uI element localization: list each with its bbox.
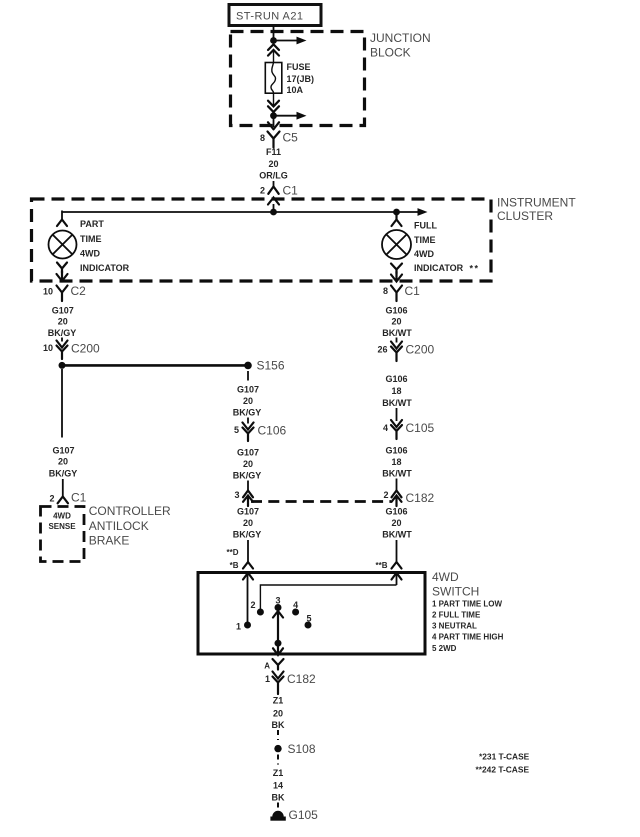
svg-text:BK/WT: BK/WT (382, 328, 412, 338)
svg-text:BK/GY: BK/GY (233, 408, 262, 418)
svg-text:BK: BK (272, 793, 285, 803)
svg-text:G107: G107 (52, 446, 74, 456)
svg-text:Z1: Z1 (273, 768, 284, 778)
svg-text:PART: PART (80, 219, 104, 229)
svg-text:BLOCK: BLOCK (370, 46, 411, 60)
svg-text:3: 3 (234, 490, 239, 500)
svg-text:BK/WT: BK/WT (382, 398, 412, 408)
switch terminal 5 (305, 614, 312, 629)
lamp terminal fork (full time, top) (392, 212, 402, 226)
svg-text:BRAKE: BRAKE (89, 534, 130, 548)
switch terminal 4 (292, 600, 299, 616)
controller antilock brake (41, 504, 172, 562)
svg-text:C1: C1 (405, 284, 421, 298)
wire Z1 14 BK (272, 768, 285, 810)
switch entry male arrow (left) (243, 573, 253, 580)
svg-text:20: 20 (268, 159, 278, 169)
svg-text:CONTROLLER: CONTROLLER (89, 504, 171, 518)
splice node (left, to S156) (59, 362, 66, 369)
wire G107 20 BK/GY (S156 to C106) (233, 385, 262, 424)
svg-text:BK/GY: BK/GY (49, 469, 78, 479)
svg-text:S108: S108 (288, 742, 316, 756)
ground G105 (270, 808, 318, 822)
connector C5 pin 8 (260, 131, 298, 148)
svg-text:**: ** (470, 264, 480, 274)
wire terminal 2 riser (260, 585, 396, 610)
svg-text:G107: G107 (237, 448, 259, 458)
svg-text:14: 14 (273, 781, 283, 791)
svg-text:C5: C5 (283, 131, 299, 145)
switch wiper pivot node (275, 640, 282, 647)
connector C1 pin 2 (instrument cluster, female fork) (260, 184, 298, 198)
svg-text:CLUSTER: CLUSTER (497, 209, 553, 223)
svg-text:G107: G107 (237, 507, 259, 517)
svg-text:10: 10 (43, 287, 53, 297)
junction node (top) (270, 37, 277, 44)
svg-text:4 PART TIME HIGH: 4 PART TIME HIGH (432, 633, 504, 642)
svg-text:C1: C1 (283, 184, 299, 198)
double chevron up (circuit continues) (268, 44, 279, 55)
svg-text:8: 8 (383, 286, 388, 296)
connector C1 pin 2 (controller) (49, 491, 86, 505)
wire arrow to other circuits (bottom) (274, 112, 307, 120)
splice S156 (244, 359, 285, 373)
wire dashed C182 mating line (251, 500, 391, 503)
switch terminal fork (left) (243, 562, 253, 569)
wire G107 20 BK/GY (C2 to C200) (48, 306, 77, 342)
svg-text:20: 20 (391, 317, 401, 327)
svg-text:4WD: 4WD (432, 570, 459, 584)
wire bus with right arrow (62, 208, 428, 216)
svg-text:JUNCTION: JUNCTION (370, 31, 431, 45)
wire S108 down (dashed) (277, 755, 279, 765)
wire junction block exit with male arrow (268, 112, 279, 129)
svg-text:C182: C182 (287, 672, 316, 686)
junction block (231, 31, 431, 126)
svg-text:A: A (264, 662, 270, 671)
svg-text:TIME: TIME (80, 234, 102, 244)
svg-text:1 PART TIME LOW: 1 PART TIME LOW (432, 600, 503, 609)
junction node (bottom) (270, 112, 277, 119)
svg-text:1: 1 (236, 622, 241, 632)
svg-text:2 FULL TIME: 2 FULL TIME (432, 611, 481, 620)
wire below left splice (61, 369, 63, 438)
wire splice to S156 (62, 364, 247, 367)
connector C182 pin 3 (fork and male arrow) (234, 490, 253, 506)
svg-text:2: 2 (49, 494, 54, 504)
svg-text:10: 10 (43, 343, 53, 353)
svg-text:4: 4 (293, 600, 298, 610)
splice S108 (274, 742, 316, 756)
svg-text:OR/LG: OR/LG (259, 171, 288, 181)
switch terminal fork A (below box) (264, 659, 283, 671)
svg-text:2: 2 (383, 490, 388, 500)
svg-text:C105: C105 (406, 421, 435, 435)
connector C105 pin 4 (383, 420, 435, 439)
connector C200 pin 26 (377, 342, 434, 362)
wire switch right entry down (396, 574, 398, 585)
svg-text:5: 5 (306, 614, 311, 624)
svg-text:ANTILOCK: ANTILOCK (89, 519, 149, 533)
wire stub below S156 (247, 371, 249, 381)
svg-text:8: 8 (260, 133, 265, 143)
svg-text:*231 T-CASE: *231 T-CASE (479, 752, 530, 762)
connector C200 pin 10 (43, 341, 100, 360)
wire F11 20 OR/LG (259, 147, 288, 187)
svg-text:C200: C200 (71, 342, 100, 356)
wire G107 20 BK/GY (C106 to C182) (233, 448, 262, 492)
wire G106 18 BK/WT (C105 to C182) (382, 446, 412, 492)
lamp L1 part time 4WD indicator (49, 219, 130, 273)
svg-text:BK/WT: BK/WT (382, 469, 412, 479)
switch terminal 2 (250, 600, 263, 616)
svg-text:SWITCH: SWITCH (432, 585, 479, 599)
svg-text:**D: **D (226, 548, 238, 557)
svg-text:C106: C106 (258, 424, 287, 438)
wire bus corner down to part time lamp (61, 211, 63, 220)
lamp terminal fork (full time, bottom) (391, 264, 402, 274)
connector C182 pin 2 (fork and male arrow) (383, 490, 434, 506)
svg-text:20: 20 (391, 518, 401, 528)
wire G106 18 BK/WT (C200 to C105) (382, 374, 412, 421)
4WD switch SW1 (198, 570, 504, 654)
connector C182 pin 1 (265, 672, 316, 695)
svg-text:5 2WD: 5 2WD (432, 644, 457, 653)
connector C1 pin 2 male arrow (below border) (268, 198, 279, 205)
switch terminal 3 (275, 596, 282, 612)
svg-text:G107: G107 (237, 385, 259, 395)
svg-text:C182: C182 (406, 491, 435, 505)
svg-text:26: 26 (377, 345, 387, 355)
wire switch left entry to terminal 1 (247, 574, 249, 623)
svg-text:SENSE: SENSE (48, 522, 76, 531)
svg-text:BK/GY: BK/GY (233, 530, 262, 540)
svg-text:INDICATOR: INDICATOR (80, 263, 130, 273)
wire lamp to C1 with male arrow (391, 272, 402, 282)
svg-text:18: 18 (391, 457, 401, 467)
switch terminal fork (right) (392, 562, 402, 569)
wire arrow to other circuits (top) (274, 37, 307, 45)
svg-text:BK: BK (272, 720, 285, 730)
svg-text:FUSE: FUSE (287, 62, 311, 72)
svg-text:20: 20 (58, 457, 68, 467)
lamp L2 full time 4WD indicator (382, 221, 480, 274)
switch entry male arrow (right) (392, 573, 402, 580)
wire G107 20 BK/GY (C182 to switch) (233, 507, 262, 563)
svg-text:17(JB): 17(JB) (287, 74, 315, 84)
double chevron down (circuit continues) (268, 101, 279, 112)
svg-text:Z1: Z1 (273, 696, 284, 706)
svg-text:S156: S156 (257, 359, 285, 373)
svg-text:BK/GY: BK/GY (48, 328, 77, 338)
svg-text:20: 20 (243, 459, 253, 469)
svg-text:2: 2 (250, 600, 255, 610)
svg-text:20: 20 (273, 709, 283, 719)
wire switch exit with male arrow (273, 643, 283, 655)
svg-text:C200: C200 (406, 343, 435, 357)
svg-text:INDICATOR: INDICATOR (414, 263, 464, 273)
wire chevron to fuse (273, 50, 275, 63)
wire G107 20 BK/GY (to controller) (49, 446, 78, 498)
svg-text:F11: F11 (266, 147, 281, 157)
svg-text:1: 1 (265, 674, 270, 684)
svg-text:C2: C2 (71, 284, 87, 298)
svg-text:4WD: 4WD (80, 249, 101, 259)
wire from ST-RUN A21 into junction block (273, 26, 275, 40)
svg-text:BK/GY: BK/GY (233, 471, 262, 481)
node bus / full time lamp tap (393, 209, 400, 216)
lamp terminal fork (part time, bottom) (57, 263, 67, 274)
svg-text:ST-RUN A21: ST-RUN A21 (236, 11, 303, 23)
svg-text:G106: G106 (385, 374, 407, 384)
connector C1 pin 8 (383, 284, 420, 301)
svg-text:TIME: TIME (414, 235, 436, 245)
node ST-RUN A21 (229, 5, 321, 26)
svg-text:20: 20 (243, 396, 253, 406)
svg-text:2: 2 (260, 186, 265, 196)
connector C2 pin 10 (43, 284, 86, 301)
node bus / C1 feed (270, 209, 277, 216)
svg-text:4: 4 (383, 423, 388, 433)
svg-text:G106: G106 (385, 306, 407, 316)
svg-text:5: 5 (234, 425, 239, 435)
svg-text:3: 3 (275, 596, 280, 606)
svg-text:BK/WT: BK/WT (382, 530, 412, 540)
svg-text:G106: G106 (385, 507, 407, 517)
wire C1 to bus (273, 204, 275, 212)
connector C106 pin 5 (234, 423, 287, 442)
svg-text:C1: C1 (71, 491, 87, 505)
svg-text:20: 20 (58, 317, 68, 327)
wire Z1 20 BK (272, 696, 285, 741)
svg-text:20: 20 (243, 518, 253, 528)
svg-text:FULL: FULL (414, 221, 437, 231)
svg-text:**B: **B (375, 561, 387, 570)
instrument cluster (32, 196, 577, 282)
svg-text:18: 18 (391, 386, 401, 396)
switch terminal 1 (236, 622, 251, 632)
svg-text:G105: G105 (289, 808, 319, 822)
svg-text:10A: 10A (287, 85, 304, 95)
svg-text:**242 T-CASE: **242 T-CASE (476, 765, 530, 775)
svg-text:*B: *B (230, 561, 239, 570)
svg-text:G106: G106 (385, 446, 407, 456)
svg-text:4WD: 4WD (53, 512, 71, 521)
svg-text:G107: G107 (52, 306, 74, 316)
svg-text:INSTRUMENT: INSTRUMENT (497, 196, 576, 210)
wire fuse to chevron (273, 93, 275, 106)
svg-text:4WD: 4WD (414, 249, 435, 259)
lamp terminal fork (part time, top) (57, 220, 67, 227)
switch wiper arrow to terminal 3 (273, 611, 283, 643)
wire G106 20 BK/WT (C182 to switch) (382, 507, 412, 563)
wire G106 20 BK/WT (C1 to C200) (382, 306, 412, 343)
wire lamp to C2 with male arrow (57, 271, 68, 281)
fuse 17(JB) 10A (265, 62, 314, 95)
svg-text:3 NEUTRAL: 3 NEUTRAL (432, 622, 477, 631)
